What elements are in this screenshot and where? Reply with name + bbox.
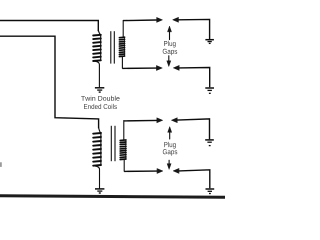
wire L4 top to gap (124, 119, 157, 122)
secondary coil L2 (119, 20, 124, 68)
wire L1 bottom lead (95, 61, 100, 87)
plug gap arrow left (bottom row T1) (173, 65, 179, 70)
label Twin Double Ended Coils (81, 96, 120, 109)
callout arrow down (T2) (167, 160, 171, 169)
ground G5 (205, 140, 214, 146)
label Plug Gaps (T1) (163, 41, 177, 56)
callout arrow down (T1) (167, 56, 171, 67)
callout arrow up (T2) (168, 127, 172, 140)
secondary coil L4 (120, 121, 126, 172)
ground G2 (205, 40, 214, 44)
ground G3 (205, 88, 214, 93)
ground G4 under L3 (95, 189, 104, 193)
wire gap to ground G6 (179, 170, 210, 189)
plug gap arrow right (bottom row T2) (157, 169, 163, 174)
plug gap arrow right (bottom row T1) (157, 66, 163, 71)
primary coil L3 (93, 128, 101, 166)
callout arrow up (T1) (168, 26, 172, 40)
wire L2 top to gap (123, 19, 157, 22)
transformer core T1 (111, 31, 115, 63)
plug gap arrow left (top row T1) (173, 17, 179, 22)
wire L2 bottom to gap (122, 67, 156, 69)
plug gap arrow left (bottom row T2) (173, 168, 179, 173)
wire W2 primary feed lower (0, 36, 99, 128)
wire gap to ground G3 (179, 68, 210, 88)
wire gap to ground G2 (178, 19, 209, 39)
ground G1 under L1 (95, 88, 104, 92)
stray mark left edge (0, 162, 2, 167)
transformer core T2 (111, 126, 115, 161)
plug gap arrow right (top row T2) (157, 118, 163, 123)
wire W1 primary feed top (0, 21, 98, 32)
ground G6 (206, 189, 215, 194)
wire gap to ground G5 (177, 119, 210, 139)
wire L4 bottom to gap (124, 170, 157, 172)
plug gap arrow right (top row T1) (157, 17, 163, 22)
bottom border bar (0, 194, 225, 199)
wire L3 bottom lead (95, 166, 100, 188)
primary coil L1 (93, 30, 101, 61)
plug gap arrow left (top row T2) (171, 118, 177, 123)
label Plug Gaps (T2) (163, 142, 177, 156)
